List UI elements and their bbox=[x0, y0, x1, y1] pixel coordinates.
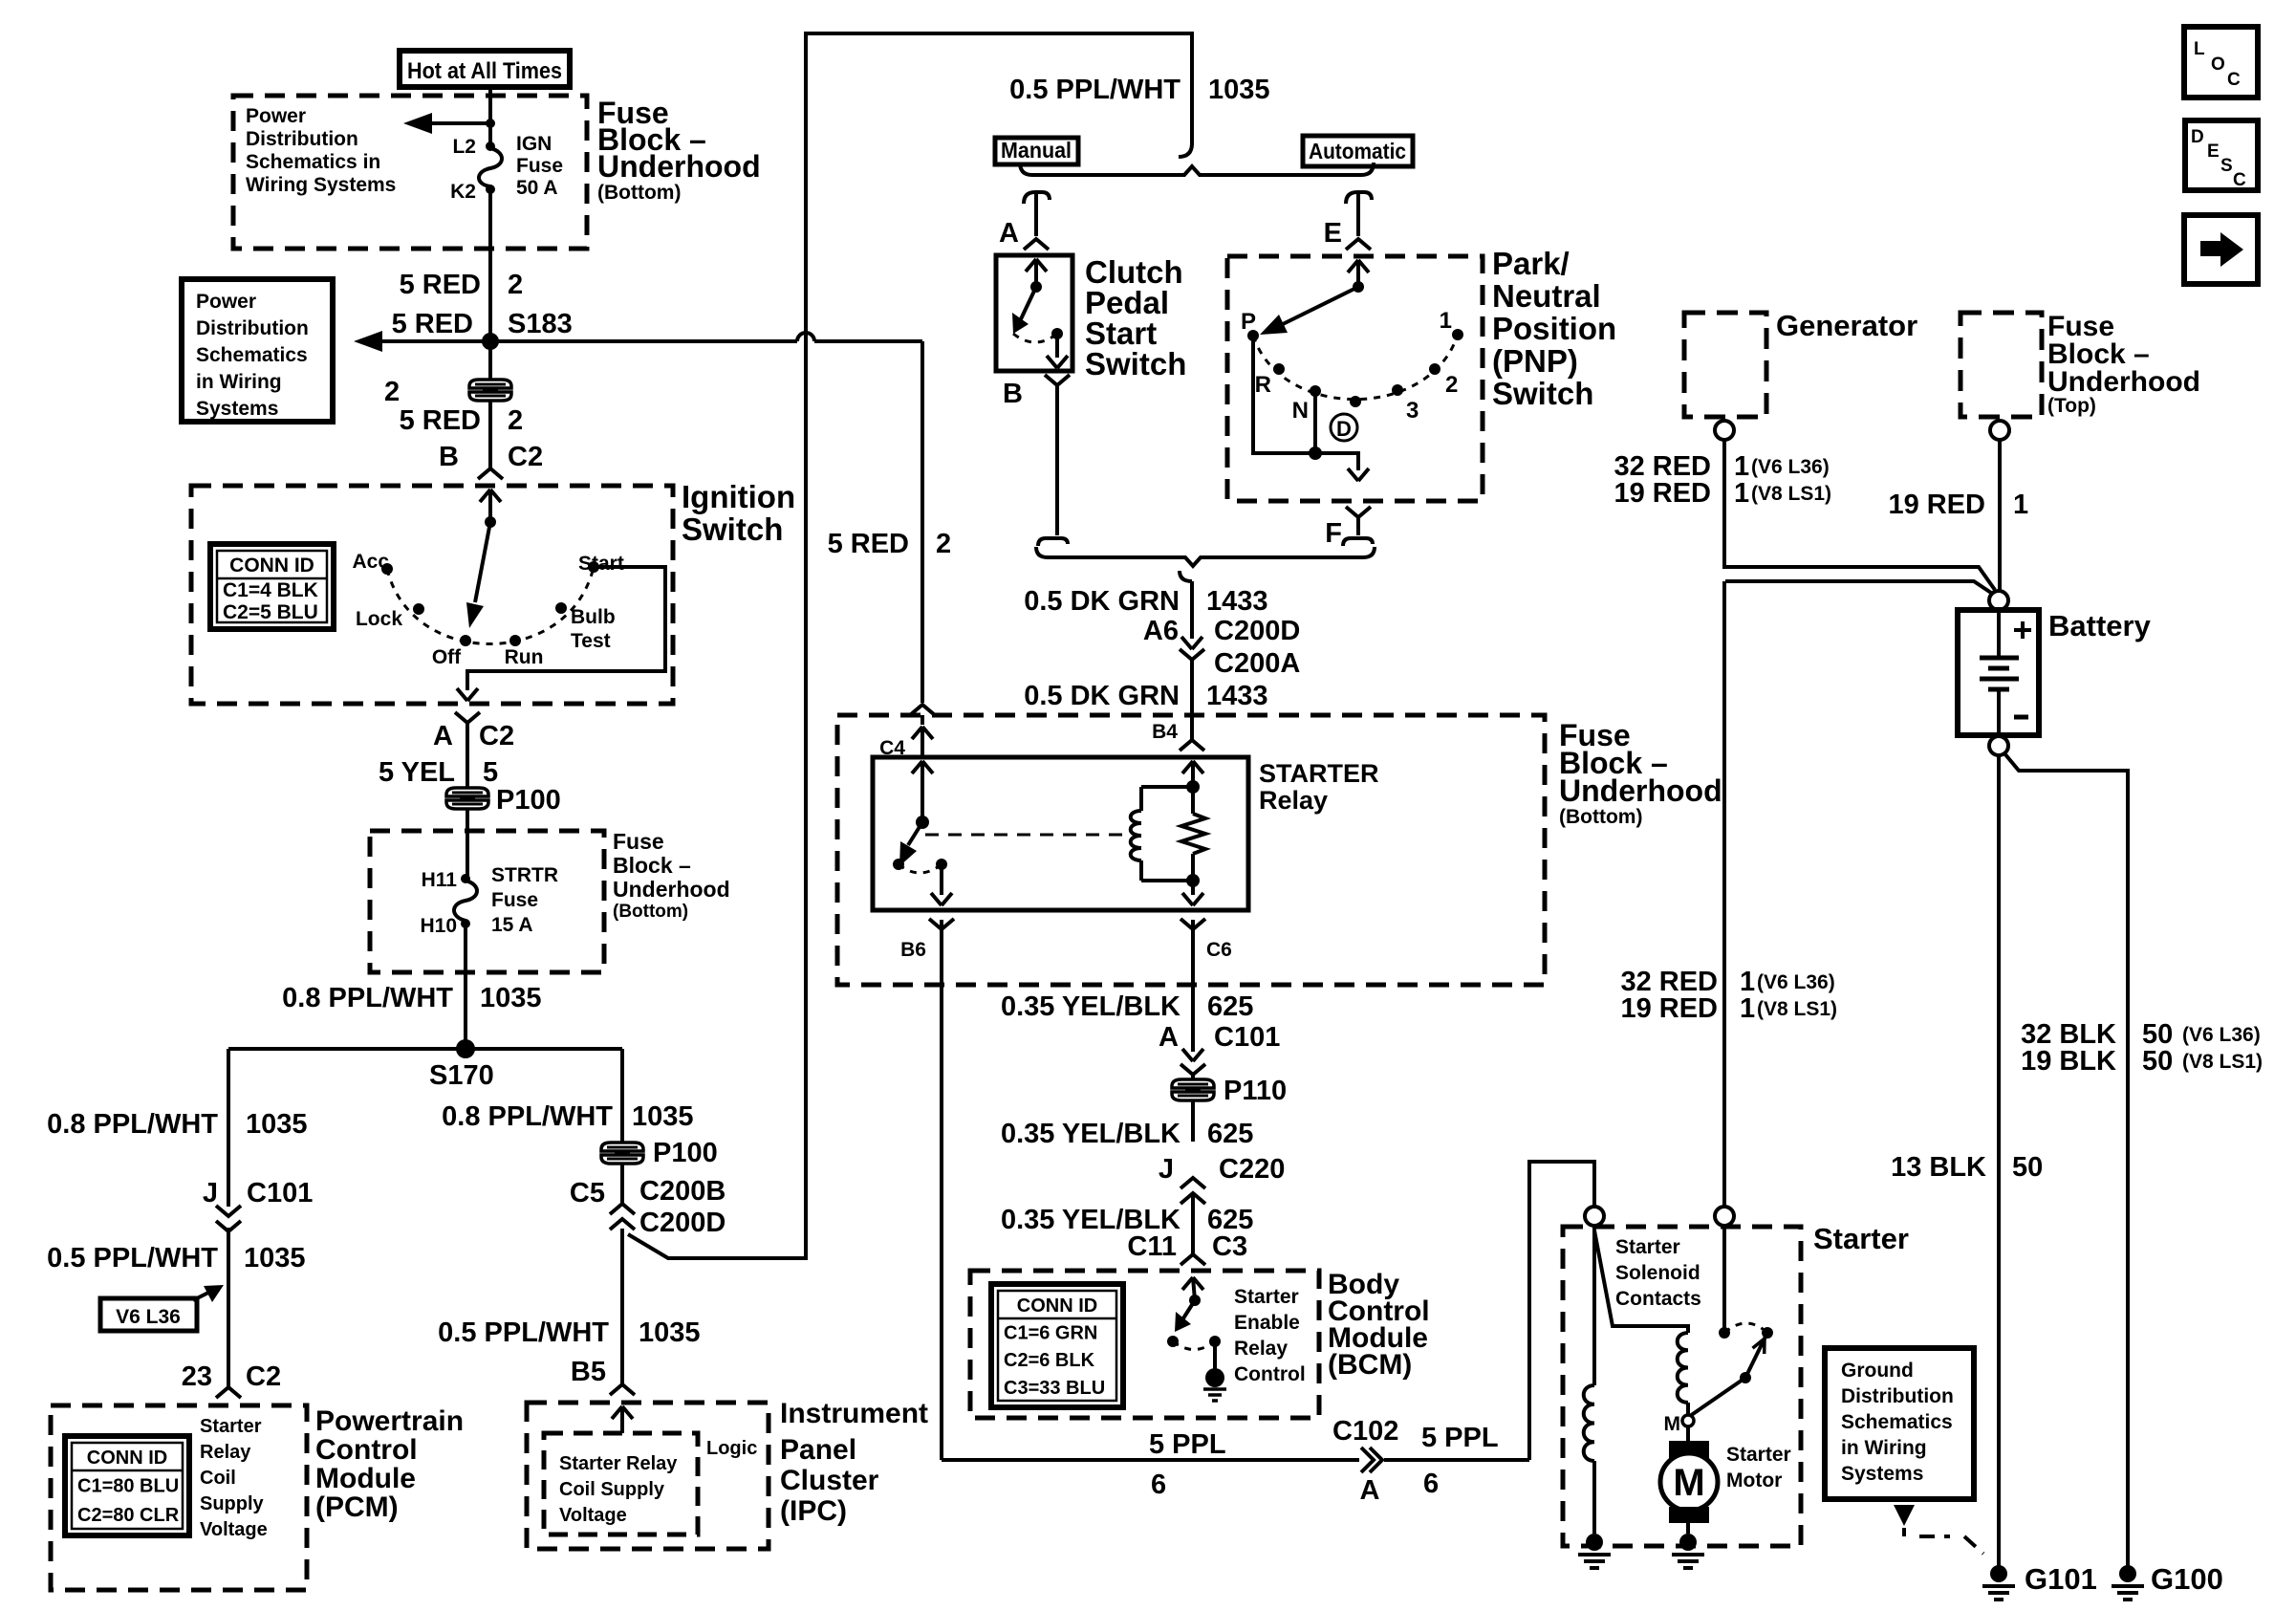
wire: P contact to output bus bbox=[1253, 336, 1315, 453]
terminal label F bbox=[1325, 518, 1342, 549]
relay contact dots bbox=[893, 859, 947, 870]
connector chevron below clutch switch bbox=[1045, 375, 1070, 385]
svg-text:C200A: C200A bbox=[1214, 648, 1300, 679]
component name: Park/Neutral Position (PNP) Switch bbox=[1492, 246, 1616, 411]
svg-text:Starter Relay: Starter Relay bbox=[559, 1453, 678, 1474]
fuse block (underhood, bottom) dashed outline box bbox=[233, 96, 587, 249]
connector C200D/C200A pin A6 bbox=[1143, 616, 1300, 679]
wire: S183 down to grommet bbox=[488, 341, 492, 379]
wire: P100 to C200 connector bbox=[620, 1165, 624, 1203]
wire label 32 RED / 19 RED (starter feed) bbox=[1620, 967, 1837, 1024]
svg-text:Starter: Starter bbox=[1615, 1236, 1680, 1258]
svg-text:(IPC): (IPC) bbox=[780, 1495, 847, 1527]
wire: S183 branch left with arrow to power distribution bbox=[354, 331, 490, 352]
svg-text:50: 50 bbox=[2012, 1152, 2043, 1183]
svg-text:C220: C220 bbox=[1219, 1154, 1285, 1185]
svg-text:Ignition: Ignition bbox=[682, 479, 795, 514]
wire label 0.35 YEL/BLK 625 (lower) bbox=[1001, 1205, 1253, 1235]
relay switch: input pin and pivot bbox=[912, 761, 933, 829]
starter motor M bbox=[1660, 1441, 1718, 1523]
svg-text:in Wiring: in Wiring bbox=[1841, 1437, 1927, 1459]
splice S170 bbox=[429, 1039, 494, 1091]
svg-text:K2: K2 bbox=[450, 181, 476, 203]
svg-text:2: 2 bbox=[936, 529, 951, 559]
svg-text:Motor: Motor bbox=[1726, 1469, 1782, 1491]
svg-text:Bulb: Bulb bbox=[571, 606, 616, 628]
svg-text:P110: P110 bbox=[1224, 1076, 1287, 1106]
contact 2 bbox=[1429, 363, 1458, 398]
svg-text:Underhood: Underhood bbox=[2047, 366, 2200, 398]
label STARTER Relay bbox=[1259, 759, 1379, 815]
label Logic bbox=[706, 1438, 757, 1459]
branch bracket E bbox=[1346, 192, 1372, 236]
svg-text:Fuse: Fuse bbox=[613, 829, 664, 854]
wire: starter motor to ground bbox=[1686, 1523, 1690, 1534]
IPC logic dashed inner box bbox=[544, 1433, 698, 1535]
body control module dashed outline box bbox=[970, 1271, 1319, 1418]
svg-text:Voltage: Voltage bbox=[559, 1505, 627, 1526]
svg-text:(V8 LS1): (V8 LS1) bbox=[2182, 1051, 2263, 1073]
svg-text:Starter: Starter bbox=[200, 1416, 262, 1437]
svg-text:S183: S183 bbox=[508, 309, 573, 339]
starter B feed wire from battery bbox=[1722, 581, 1726, 1208]
connector chevron above clutch switch bbox=[1024, 239, 1049, 287]
svg-text:6: 6 bbox=[1423, 1469, 1439, 1499]
wire: C101 to P110 bbox=[1191, 1075, 1195, 1142]
svg-text:C2=5 BLU: C2=5 BLU bbox=[223, 601, 318, 623]
svg-text:1: 1 bbox=[2013, 490, 2028, 520]
terminal label C4 bbox=[879, 737, 905, 759]
wire: C200D feed to manual/automatic circuits (riser) bbox=[622, 33, 1192, 1258]
svg-text:E: E bbox=[2207, 142, 2220, 162]
wire: C220 to BCM C3 bbox=[1191, 1193, 1195, 1253]
svg-text:C: C bbox=[2227, 70, 2241, 90]
connector chevron at relay B6 bbox=[929, 919, 954, 929]
svg-text:1: 1 bbox=[1440, 308, 1452, 334]
svg-text:(Bottom): (Bottom) bbox=[1559, 806, 1642, 828]
svg-text:C: C bbox=[2233, 170, 2246, 190]
component name: Battery bbox=[2048, 609, 2152, 642]
svg-text:Neutral: Neutral bbox=[1492, 278, 1601, 314]
svg-text:(V6 L36): (V6 L36) bbox=[2182, 1024, 2261, 1046]
label H10 bbox=[420, 915, 457, 937]
svg-text:C2: C2 bbox=[246, 1361, 281, 1392]
svg-text:(V8 LS1): (V8 LS1) bbox=[1757, 998, 1837, 1020]
contact R bbox=[1255, 363, 1285, 398]
svg-text:Powertrain: Powertrain bbox=[315, 1405, 464, 1437]
svg-text:Wiring Systems: Wiring Systems bbox=[246, 174, 396, 196]
battery minus sign bbox=[2014, 715, 2028, 720]
svg-text:1433: 1433 bbox=[1206, 681, 1268, 711]
svg-text:(V6 L36): (V6 L36) bbox=[1757, 971, 1835, 993]
svg-text:Start: Start bbox=[578, 553, 624, 575]
svg-text:Distribution: Distribution bbox=[196, 317, 309, 339]
battery negative terminal bbox=[1989, 736, 2008, 755]
svg-text:Park/: Park/ bbox=[1492, 246, 1570, 281]
svg-text:Test: Test bbox=[571, 630, 611, 652]
svg-text:Run: Run bbox=[505, 646, 544, 668]
svg-text:1035: 1035 bbox=[639, 1317, 701, 1348]
svg-text:A: A bbox=[433, 721, 453, 751]
svg-text:J: J bbox=[1159, 1154, 1174, 1185]
svg-text:IGN: IGN bbox=[516, 133, 552, 155]
legend box DESC bbox=[2185, 120, 2258, 190]
svg-text:C200D: C200D bbox=[1214, 616, 1300, 646]
battery positive terminal bbox=[1989, 591, 2008, 610]
svg-text:19 RED: 19 RED bbox=[1614, 478, 1711, 509]
svg-text:Generator: Generator bbox=[1776, 309, 1917, 342]
svg-text:C3: C3 bbox=[1212, 1231, 1247, 1262]
connector chevron above PNP switch bbox=[1346, 239, 1371, 287]
component name: Fuse Block - Underhood (Bottom) bbox=[597, 96, 761, 204]
starter relay outline box bbox=[873, 757, 1248, 910]
label L2 bbox=[452, 136, 476, 158]
svg-text:19 RED: 19 RED bbox=[1620, 993, 1718, 1024]
svg-text:C1=4 BLK: C1=4 BLK bbox=[223, 579, 318, 601]
BCM relay coil post to ground bbox=[1203, 1341, 1226, 1401]
svg-text:N: N bbox=[1292, 398, 1309, 424]
wire: 5 RED 2 feed from S183 to relay C4 bbox=[491, 333, 922, 703]
connector symbol at ignition C2 pin A bbox=[455, 712, 480, 723]
relay armature link to coil (dashed) bbox=[925, 834, 1132, 837]
svg-text:Power: Power bbox=[246, 105, 306, 127]
connector symbol at ignition switch C2 pin B bbox=[478, 468, 503, 522]
wire: S terminal to hold-in winding bbox=[1592, 1226, 1596, 1385]
svg-text:Systems: Systems bbox=[1841, 1463, 1923, 1485]
connector pin label C11 / C3 bbox=[1127, 1231, 1247, 1262]
svg-text:A6: A6 bbox=[1143, 616, 1179, 646]
contact 1 bbox=[1440, 308, 1463, 340]
svg-text:Fuse: Fuse bbox=[491, 889, 538, 911]
wire: relay to C6 exit bbox=[1182, 881, 1203, 905]
starter M terminal bbox=[1664, 1413, 1695, 1435]
fuse block (underhood top) dashed outline box bbox=[1960, 313, 2042, 417]
svg-text:Block –: Block – bbox=[613, 853, 691, 878]
wire: battery negative to G101 bbox=[1997, 755, 2001, 1568]
svg-text:C200D: C200D bbox=[639, 1208, 726, 1238]
connector chevron at relay C4 bbox=[910, 705, 935, 757]
wire label 5 YEL 5 bbox=[379, 757, 498, 788]
grommet P110 bbox=[1172, 1076, 1287, 1106]
wire label 0.5 PPL/WHT 1035 (IPC branch) bbox=[438, 1317, 700, 1348]
svg-text:C5: C5 bbox=[570, 1178, 605, 1208]
svg-text:Instrument: Instrument bbox=[780, 1398, 928, 1429]
svg-text:19 RED: 19 RED bbox=[1888, 490, 1985, 520]
clutch switch pivot and wiper bbox=[1012, 281, 1042, 334]
engine tag V6 L36 with pointer arrow bbox=[100, 1285, 224, 1331]
fuse IGN 50A element bbox=[479, 142, 502, 194]
svg-text:5 RED: 5 RED bbox=[400, 405, 481, 436]
svg-text:0.8 PPL/WHT: 0.8 PPL/WHT bbox=[282, 983, 453, 1013]
svg-text:5 YEL: 5 YEL bbox=[379, 757, 455, 788]
svg-text:S: S bbox=[2220, 156, 2233, 176]
option label box: Manual bbox=[995, 138, 1078, 164]
svg-text:(PCM): (PCM) bbox=[315, 1491, 399, 1523]
generator output terminal bbox=[1715, 421, 1734, 440]
BCM relay contacts bbox=[1167, 1336, 1221, 1347]
wire: C200A to fuse block B4 bbox=[1190, 660, 1194, 739]
wire: branch down to IPC pin B5 bbox=[620, 1229, 624, 1383]
park/neutral position switch dashed outline box bbox=[1227, 256, 1483, 501]
conn id table (ignition switch) bbox=[210, 544, 334, 629]
svg-text:Control: Control bbox=[1234, 1363, 1306, 1385]
wire: hold-in winding to ground bbox=[1592, 1461, 1596, 1534]
svg-text:D: D bbox=[2191, 127, 2204, 147]
svg-text:2: 2 bbox=[1445, 372, 1458, 398]
svg-text:Underhood: Underhood bbox=[613, 877, 730, 902]
svg-text:Battery: Battery bbox=[2048, 609, 2152, 642]
svg-text:Switch: Switch bbox=[682, 512, 783, 547]
svg-text:Contacts: Contacts bbox=[1615, 1288, 1701, 1310]
svg-text:P: P bbox=[1241, 309, 1256, 335]
BCM relay wiper arm bbox=[1175, 1300, 1195, 1332]
relay switch wiper arm bbox=[899, 822, 922, 866]
svg-text:CONN ID: CONN ID bbox=[229, 555, 314, 577]
wire: 5 PPL horizontal run bbox=[942, 1458, 1529, 1462]
wire label 19 RED 1 bbox=[1888, 490, 2028, 520]
svg-text:50 A: 50 A bbox=[516, 177, 558, 199]
wire: S170 left branch down to PCM bbox=[227, 1049, 230, 1386]
svg-text:R: R bbox=[1255, 372, 1271, 398]
svg-text:L: L bbox=[2194, 39, 2205, 59]
wire label 0.5 DK GRN 1433 (lower) bbox=[1024, 681, 1267, 711]
wire label 5 RED 2 (relay feed) bbox=[828, 529, 952, 559]
contact N bbox=[1292, 385, 1321, 424]
component name: Instrument Panel Cluster (IPC) bbox=[780, 1398, 928, 1527]
label STRTR Fuse 15 A bbox=[491, 864, 558, 936]
svg-text:19 BLK: 19 BLK bbox=[2021, 1046, 2116, 1077]
starter solenoid S terminal bbox=[1585, 1207, 1604, 1226]
svg-text:(Bottom): (Bottom) bbox=[597, 182, 681, 204]
wire: M terminal to starter motor bbox=[1686, 1426, 1690, 1441]
svg-text:A: A bbox=[999, 218, 1019, 249]
svg-text:C2: C2 bbox=[508, 442, 543, 472]
conn id table (BCM) bbox=[991, 1284, 1123, 1407]
generator dashed outline box bbox=[1684, 313, 1766, 417]
svg-text:C11: C11 bbox=[1127, 1231, 1177, 1262]
svg-text:G101: G101 bbox=[2025, 1562, 2097, 1596]
svg-text:A: A bbox=[1360, 1475, 1380, 1506]
ground G101 bbox=[1982, 1562, 2097, 1600]
svg-text:H11: H11 bbox=[422, 869, 458, 891]
svg-text:5 RED: 5 RED bbox=[828, 529, 909, 559]
wire label 0.8 PPL/WHT 1035 (IPC branch) bbox=[442, 1101, 693, 1132]
wire: fuse block to battery positive bbox=[1998, 440, 2002, 591]
svg-text:F: F bbox=[1325, 518, 1342, 549]
terminal label B6 bbox=[900, 939, 926, 961]
svg-text:M: M bbox=[1664, 1413, 1681, 1435]
svg-text:0.5 PPL/WHT: 0.5 PPL/WHT bbox=[47, 1243, 218, 1274]
svg-text:C101: C101 bbox=[247, 1178, 313, 1208]
svg-text:A: A bbox=[1159, 1022, 1179, 1053]
battery cell symbol bbox=[1980, 610, 2019, 735]
wire: battery negative branch to G100 bbox=[2004, 753, 2128, 1568]
svg-text:G100: G100 bbox=[2151, 1562, 2223, 1596]
svg-text:Underhood: Underhood bbox=[597, 149, 761, 184]
svg-text:0.35 YEL/BLK: 0.35 YEL/BLK bbox=[1001, 1119, 1180, 1149]
svg-text:1035: 1035 bbox=[480, 983, 542, 1013]
svg-text:13 BLK: 13 BLK bbox=[1891, 1152, 1986, 1183]
terminal label E bbox=[1324, 218, 1342, 249]
svg-text:E: E bbox=[1324, 218, 1342, 249]
svg-text:0.5 PPL/WHT: 0.5 PPL/WHT bbox=[1009, 75, 1180, 105]
svg-text:1433: 1433 bbox=[1206, 586, 1268, 617]
svg-text:0.5 DK GRN: 0.5 DK GRN bbox=[1024, 681, 1180, 711]
svg-text:Ground: Ground bbox=[1841, 1360, 1914, 1382]
wire label 32 RED / 19 RED (generator) bbox=[1614, 451, 1831, 509]
svg-text:B6: B6 bbox=[900, 939, 926, 961]
svg-text:1: 1 bbox=[1740, 993, 1755, 1024]
svg-text:C101: C101 bbox=[1214, 1022, 1280, 1053]
clutch pedal start switch outline box bbox=[996, 255, 1072, 371]
svg-text:(Top): (Top) bbox=[2047, 395, 2096, 417]
wire: pull-in winding to M terminal bbox=[1686, 1403, 1690, 1416]
svg-text:Position: Position bbox=[1492, 311, 1616, 346]
wire: B6 down to 5 PPL run bbox=[940, 920, 943, 1460]
svg-text:C1=80 BLU: C1=80 BLU bbox=[77, 1475, 179, 1496]
wire: relay contact to B6 exit bbox=[931, 864, 952, 905]
label K2 bbox=[450, 181, 476, 203]
PCM pin function text: Starter Relay Coil Supply Voltage bbox=[200, 1416, 268, 1540]
contact D (drive, circled) bbox=[1331, 396, 1361, 441]
svg-text:0.5 PPL/WHT: 0.5 PPL/WHT bbox=[438, 1317, 609, 1348]
svg-text:Starter: Starter bbox=[1234, 1286, 1299, 1308]
svg-text:P100: P100 bbox=[496, 785, 561, 816]
wire: battery positive to starter B riser bbox=[1725, 581, 1994, 595]
svg-text:Schematics: Schematics bbox=[1841, 1411, 1953, 1433]
svg-text:STRTR: STRTR bbox=[491, 864, 558, 886]
svg-text:0.5 DK GRN: 0.5 DK GRN bbox=[1024, 586, 1180, 617]
svg-text:(V6 L36): (V6 L36) bbox=[1751, 456, 1830, 478]
contact Acc bbox=[352, 551, 393, 575]
contact P bbox=[1241, 309, 1259, 341]
svg-text:1035: 1035 bbox=[244, 1243, 306, 1274]
option label box: Automatic bbox=[1303, 136, 1413, 166]
svg-text:Solenoid: Solenoid bbox=[1615, 1262, 1700, 1284]
svg-text:Relay: Relay bbox=[1259, 786, 1328, 815]
battery plus sign bbox=[2014, 621, 2031, 639]
contact Bulb Test bbox=[555, 602, 616, 652]
svg-text:Coil Supply: Coil Supply bbox=[559, 1479, 665, 1500]
terminal label A bbox=[999, 218, 1019, 249]
dashed leader to G101 wire bbox=[1904, 1528, 1983, 1554]
starter hold-in winding coil bbox=[1584, 1385, 1594, 1461]
component name: Generator bbox=[1776, 309, 1917, 342]
contact Lock bbox=[356, 603, 424, 630]
wire: grommet to ignition switch connector bbox=[488, 402, 492, 468]
ground at starter (hold-in) bbox=[1578, 1534, 1611, 1568]
merge brace (bottom of manual/automatic) bbox=[1036, 547, 1375, 566]
svg-text:C3=33 BLU: C3=33 BLU bbox=[1004, 1378, 1105, 1399]
svg-text:C2=6 BLK: C2=6 BLK bbox=[1004, 1350, 1095, 1371]
svg-text:625: 625 bbox=[1207, 1119, 1253, 1149]
svg-text:CONN ID: CONN ID bbox=[1017, 1295, 1097, 1317]
svg-text:CONN ID: CONN ID bbox=[87, 1448, 167, 1469]
relay coil bbox=[1131, 761, 1203, 887]
svg-text:Starter: Starter bbox=[1813, 1222, 1909, 1255]
svg-text:Fuse: Fuse bbox=[516, 155, 563, 177]
wire label 13 BLK 50 bbox=[1891, 1152, 2043, 1183]
connector chevron at relay C6 bbox=[1180, 919, 1205, 929]
wire label 32 BLK / 19 BLK 50 bbox=[2021, 1019, 2263, 1077]
wire label 5 RED 2 (below grommet) bbox=[400, 405, 524, 436]
wire: S170 right branch down to P100 bbox=[620, 1049, 624, 1142]
svg-text:in Wiring: in Wiring bbox=[196, 371, 282, 393]
starter solenoid contacts switch bbox=[1690, 1226, 1773, 1416]
starter dashed outline box bbox=[1563, 1227, 1801, 1546]
wire: 5 PPL riser to starter solenoid S terminal bbox=[1529, 1162, 1594, 1460]
svg-text:5 PPL: 5 PPL bbox=[1421, 1423, 1499, 1453]
terminal label B4 bbox=[1152, 721, 1178, 743]
svg-text:Enable: Enable bbox=[1234, 1312, 1300, 1334]
note text: Power Distribution Schematics in Wiring Systems bbox=[246, 105, 396, 196]
terminal label B bbox=[1003, 379, 1023, 409]
svg-text:5 RED: 5 RED bbox=[400, 270, 481, 300]
svg-text:15 A: 15 A bbox=[491, 914, 533, 936]
svg-text:Module: Module bbox=[315, 1463, 416, 1494]
contact 3 bbox=[1392, 384, 1419, 424]
wire label 0.8 PPL/WHT 1035 (above S170) bbox=[282, 983, 541, 1013]
component name: Starter bbox=[1813, 1222, 1909, 1255]
pointer triangle below ground distribution box bbox=[1894, 1505, 1915, 1526]
wire: fuse K2 down to S183 bbox=[488, 189, 492, 341]
connector chevron at relay B4 bbox=[1180, 740, 1204, 751]
connector chevron at BCM C3 bbox=[1180, 1254, 1205, 1265]
wire: PNP output bus to pin F bbox=[1315, 453, 1369, 481]
svg-text:Lock: Lock bbox=[356, 608, 402, 630]
svg-text:Acc: Acc bbox=[352, 551, 389, 573]
svg-text:(V8 LS1): (V8 LS1) bbox=[1751, 483, 1831, 505]
component name: Ignition Switch bbox=[682, 479, 795, 547]
svg-text:L2: L2 bbox=[452, 136, 476, 158]
wire label 5 PPL 6 (engine side) bbox=[1421, 1423, 1499, 1499]
svg-text:Cluster: Cluster bbox=[780, 1465, 879, 1496]
grommet (dash panel pass-through) bbox=[469, 380, 511, 401]
svg-text:Hot at All Times: Hot at All Times bbox=[407, 58, 562, 84]
svg-text:J: J bbox=[203, 1178, 218, 1208]
label H11 bbox=[422, 869, 458, 891]
wire label 2 (left branch) bbox=[384, 377, 400, 407]
svg-text:C2=80 CLR: C2=80 CLR bbox=[77, 1505, 180, 1526]
relay switch contact arc (dashed) bbox=[899, 864, 942, 873]
label IGN Fuse 50 A bbox=[516, 133, 563, 199]
power feed label box: Hot at All Times bbox=[400, 51, 570, 87]
wire: generator output to battery positive bbox=[1724, 440, 1995, 590]
svg-text:Switch: Switch bbox=[1492, 376, 1593, 411]
wire hook into split brace bbox=[1179, 143, 1192, 157]
svg-text:Automatic: Automatic bbox=[1309, 139, 1406, 163]
conn id table (PCM) bbox=[65, 1436, 189, 1535]
wire label 5 RED 2 (above S183) bbox=[400, 270, 524, 300]
svg-text:2: 2 bbox=[508, 405, 523, 436]
svg-text:Control: Control bbox=[315, 1434, 418, 1466]
svg-text:2: 2 bbox=[508, 270, 523, 300]
wire: N contact to output bus bbox=[1309, 391, 1322, 460]
svg-text:1035: 1035 bbox=[246, 1109, 308, 1140]
wire label 0.5 PPL/WHT 1035 (PCM branch) bbox=[47, 1243, 305, 1274]
svg-text:(BCM): (BCM) bbox=[1328, 1349, 1412, 1381]
svg-text:D: D bbox=[1336, 417, 1352, 441]
starter B terminal bbox=[1715, 1207, 1734, 1226]
component name: Fuse Block - Underhood (Bottom) #2 bbox=[613, 829, 730, 922]
svg-text:O: O bbox=[2211, 54, 2225, 75]
svg-text:0.8 PPL/WHT: 0.8 PPL/WHT bbox=[47, 1109, 218, 1140]
fuse block output terminal bbox=[1990, 421, 2009, 440]
ignition switch rotor wire and wiper arm bbox=[466, 516, 496, 628]
wire label 0.5 DK GRN 1433 (upper) bbox=[1024, 586, 1267, 617]
arrow to power distribution schematics (left) bbox=[403, 113, 495, 134]
connector C220 pin J bbox=[1159, 1154, 1285, 1204]
